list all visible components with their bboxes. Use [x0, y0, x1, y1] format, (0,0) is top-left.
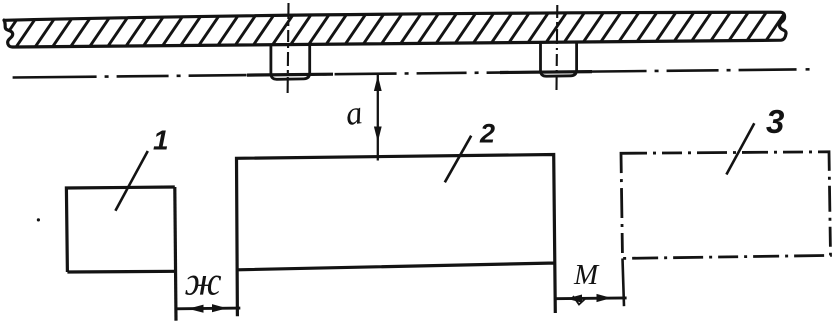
svg-text:2: 2 [479, 119, 495, 149]
svg-text:3: 3 [766, 103, 784, 140]
dimension m line [554, 296, 626, 300]
svg-text:a: a [343, 95, 364, 133]
dimension a down arrowhead [374, 127, 382, 143]
ink speck [37, 218, 40, 221]
dimension zh line [175, 307, 240, 311]
leader line 1 [115, 151, 147, 211]
box 3 dash-dot outline [621, 152, 831, 259]
dimension m pencil tick [573, 296, 585, 305]
box 2 [237, 155, 556, 317]
dimension zh right arrowhead [212, 304, 227, 312]
dimension zh left arrowhead [188, 305, 204, 313]
dimension a up arrowhead [374, 76, 382, 92]
svg-text:1: 1 [153, 125, 169, 156]
centerline solid segment at clip 2 [500, 70, 592, 74]
dimension m right arrowhead [597, 294, 612, 302]
box 1 [66, 187, 176, 272]
beam hatching [0, 0, 811, 53]
svg-text:ж: ж [185, 259, 222, 304]
vertical centerline clip 2 [555, 5, 558, 90]
box 1 right edge / zh extension line [175, 187, 176, 321]
crane runway beam (hatched bar) [4, 12, 786, 47]
centerline solid segment at clip 1 [247, 73, 333, 77]
svg-text:M: M [573, 259, 600, 291]
box 3 left extension line [623, 258, 625, 306]
vertical centerline clip 1 [287, 3, 290, 95]
hanger clip 1 [271, 44, 310, 80]
dimension m left arrowhead [567, 295, 583, 303]
leader line 3 [726, 123, 754, 174]
leader line 2 [445, 136, 471, 183]
hanger clip 2 [541, 42, 577, 77]
horizontal dash-dot centerline [13, 69, 814, 77]
dimension a vertical line [377, 75, 379, 161]
